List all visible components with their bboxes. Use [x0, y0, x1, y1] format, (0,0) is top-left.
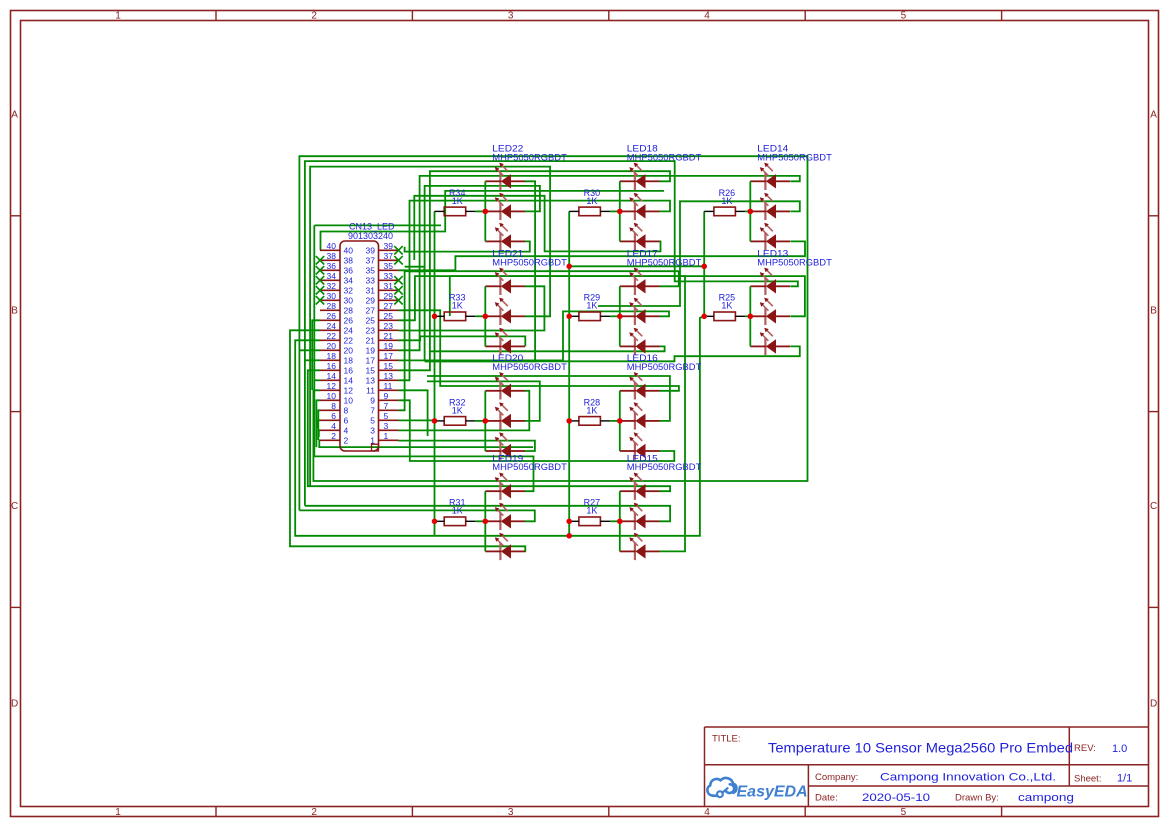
pin 37 lead [379, 259, 399, 261]
wire LED19 red to pin14 [314, 379, 320, 381]
junction [432, 519, 438, 525]
pin 11 lead [379, 389, 399, 391]
wire LED22 blue run [405, 241, 530, 251]
wire resistor net link [569, 265, 704, 267]
svg-text:35: 35 [384, 261, 394, 271]
svg-text:MHP5050RGBDT: MHP5050RGBDT [757, 257, 832, 268]
wire LED21 blue to pin21 [399, 336, 526, 346]
connector pin1 notch [372, 444, 379, 451]
svg-text:26: 26 [344, 316, 354, 326]
wire R31 to LED [475, 520, 485, 522]
svg-text:32: 32 [344, 286, 354, 296]
pin 5 lead [379, 419, 399, 421]
svg-text:1.0: 1.0 [1112, 743, 1127, 755]
pin 6 lead [320, 419, 340, 421]
wire R30 to LED [610, 210, 620, 212]
svg-text:1K: 1K [452, 196, 463, 206]
pin 10 lead [320, 399, 340, 401]
resistor R30 1K [569, 188, 610, 216]
wire R29 to LED [610, 315, 620, 317]
pin 36 no-connect X [316, 266, 324, 274]
svg-text:1K: 1K [721, 196, 732, 206]
svg-text:17: 17 [366, 356, 376, 366]
svg-text:38: 38 [344, 256, 354, 266]
wire pin35 to LED14 blue [399, 241, 806, 270]
svg-text:23: 23 [366, 326, 376, 336]
junction [701, 264, 707, 270]
svg-text:campong: campong [1018, 792, 1074, 804]
svg-text:D: D [11, 699, 18, 710]
LED LED18 MHP5050RGBDT [620, 144, 702, 250]
svg-text:22: 22 [344, 336, 354, 346]
svg-text:21: 21 [366, 336, 376, 346]
svg-text:37: 37 [384, 251, 394, 261]
svg-text:35: 35 [366, 266, 376, 276]
frame tick [11, 606, 21, 608]
LED LED14 MHP5050RGBDT [750, 144, 832, 250]
svg-text:2: 2 [331, 431, 336, 441]
wire cathode bus LED14 [749, 181, 751, 241]
wire pin17 to LED17 green [399, 311, 670, 360]
wire LED21 red to pin23 [399, 286, 545, 330]
svg-text:3: 3 [370, 426, 375, 436]
resistor R26 1K [704, 188, 745, 216]
LED LED19 MHP5050RGBDT [485, 454, 567, 560]
pin 18 lead [320, 359, 340, 361]
svg-text:1K: 1K [721, 301, 732, 311]
wire pin16 to LED15 red [308, 370, 670, 491]
svg-text:39: 39 [366, 246, 376, 256]
resistor R31 1K [435, 498, 476, 526]
svg-text:15: 15 [366, 366, 376, 376]
wire resistor net col2 vertical [568, 211, 570, 535]
frame tick [804, 807, 806, 817]
wire resistor net col1 vertical [434, 211, 436, 535]
svg-text:31: 31 [366, 286, 376, 296]
frame tick [804, 11, 806, 21]
svg-text:29: 29 [366, 296, 376, 306]
svg-text:37: 37 [366, 256, 376, 266]
wire cathode bus LED15 [619, 491, 621, 551]
svg-text:13: 13 [384, 371, 394, 381]
svg-text:25: 25 [366, 316, 376, 326]
svg-text:20: 20 [344, 346, 354, 356]
wire R28 to LED [610, 420, 620, 422]
resistor R32 1K [435, 397, 476, 425]
svg-text:1K: 1K [586, 196, 597, 206]
svg-text:14: 14 [327, 371, 337, 381]
svg-text:C: C [1150, 501, 1157, 512]
svg-text:MHP5050RGBDT: MHP5050RGBDT [627, 362, 702, 373]
svg-text:11: 11 [366, 386, 375, 396]
pin 20 lead [320, 349, 340, 351]
svg-text:33: 33 [384, 271, 394, 281]
wire R34 to LED [475, 210, 485, 212]
svg-text:MHP5050RGBDT: MHP5050RGBDT [757, 152, 832, 163]
wire pin15 to LED18 red [399, 171, 671, 370]
junction [566, 264, 572, 270]
svg-text:18: 18 [327, 351, 337, 361]
pin 19 lead [379, 349, 399, 351]
frame tick [1149, 215, 1159, 217]
svg-text:4: 4 [344, 426, 349, 436]
wire LED20 blue to pin1 [399, 441, 535, 451]
pin 3 lead [379, 429, 399, 431]
svg-text:Sheet:: Sheet: [1074, 773, 1101, 784]
wire resistor net col3 vertical [703, 211, 705, 316]
pin 15 lead [379, 369, 399, 371]
pin 17 lead [379, 359, 399, 361]
svg-text:TITLE:: TITLE: [712, 734, 741, 745]
wire pin25 to LED13 green [399, 276, 805, 320]
pin 14 lead [320, 379, 340, 381]
frame tick [1001, 11, 1003, 21]
wire pin8 hook [318, 410, 320, 440]
svg-text:3: 3 [508, 11, 514, 22]
wire net L1 pin20 riser to pin12 loop [299, 156, 807, 510]
svg-text:21: 21 [384, 331, 394, 341]
pin 25 lead [379, 319, 399, 321]
junction LED15 cathode [617, 519, 623, 525]
svg-text:1K: 1K [586, 506, 597, 516]
pin 8 lead [320, 409, 340, 411]
svg-text:30: 30 [344, 296, 354, 306]
svg-text:36: 36 [344, 266, 354, 276]
wire LED17 blue route [430, 346, 665, 351]
frame tick [215, 807, 217, 817]
pin 27 lead [379, 309, 399, 311]
resistor R25 1K [704, 293, 745, 321]
svg-text:7: 7 [384, 401, 389, 411]
svg-text:MHP5050RGBDT: MHP5050RGBDT [492, 257, 567, 268]
wire pin9 to LED16 blue [399, 400, 675, 461]
junction [566, 418, 572, 424]
wire pin18 to LED15 green [305, 359, 320, 361]
svg-text:31: 31 [384, 281, 394, 291]
svg-text:8: 8 [331, 401, 336, 411]
svg-text:5: 5 [901, 807, 907, 818]
junction LED13 cathode [748, 314, 754, 320]
pin 31 lead [379, 289, 399, 291]
wire pin27 to LED16 red [399, 310, 679, 391]
svg-text:24: 24 [327, 321, 337, 331]
wire resistor common net (pin22) [295, 316, 704, 536]
svg-text:6: 6 [331, 411, 336, 421]
wire net L3 to LED21 green [310, 167, 550, 487]
svg-text:1: 1 [370, 436, 375, 446]
pin 22 lead [320, 339, 340, 341]
junction [432, 314, 438, 320]
pin 16 lead [320, 369, 340, 371]
svg-text:2: 2 [344, 436, 349, 446]
junction [566, 314, 572, 320]
svg-text:12: 12 [344, 386, 354, 396]
svg-text:40: 40 [327, 241, 337, 251]
pin 30 no-connect X [316, 296, 324, 304]
LED LED21 MHP5050RGBDT [485, 249, 567, 355]
wire R25 to LED [745, 315, 750, 317]
LED LED17 MHP5050RGBDT [620, 249, 702, 355]
svg-text:18: 18 [344, 356, 354, 366]
svg-text:Campong Innovation Co.,Ltd.: Campong Innovation Co.,Ltd. [880, 771, 1056, 783]
pin 38 no-connect X [316, 256, 324, 264]
svg-text:26: 26 [327, 311, 337, 321]
svg-text:REV:: REV: [1074, 743, 1096, 754]
junction LED17 cathode [617, 314, 623, 320]
LED LED13 MHP5050RGBDT [750, 249, 832, 355]
junction [432, 418, 438, 424]
pin 32 lead [320, 289, 340, 291]
wire LED18 blue riser [414, 196, 660, 260]
svg-text:MHP5050RGBDT: MHP5050RGBDT [627, 257, 702, 268]
pin 26 lead [320, 319, 340, 321]
frame tick [608, 807, 610, 817]
wire LED20 red to pin3 [399, 391, 530, 431]
svg-text:4: 4 [331, 421, 336, 431]
wire LED19 green run [299, 510, 534, 521]
wire pin6 hook [317, 420, 320, 428]
pin 21 lead [379, 339, 399, 341]
pin 13 lead [379, 379, 399, 381]
svg-text:1K: 1K [586, 405, 597, 415]
svg-text:27: 27 [366, 306, 376, 316]
wire LED19 blue to pin24 [290, 330, 525, 551]
LED LED22 MHP5050RGBDT [485, 144, 567, 250]
junction LED21 cathode [483, 314, 489, 320]
wire LED20 green up [427, 381, 540, 421]
svg-text:8: 8 [344, 406, 349, 416]
wire LED15 green run [305, 506, 670, 522]
junction LED20 cathode [483, 418, 489, 424]
svg-text:MHP5050RGBDT: MHP5050RGBDT [492, 152, 567, 163]
wire pin26 hook [312, 320, 320, 390]
frame tick [1149, 411, 1159, 413]
svg-text:1K: 1K [452, 301, 463, 311]
pin 32 no-connect X [316, 286, 324, 294]
wire pin2 under-run [319, 440, 533, 447]
wire R26 to LED [745, 210, 750, 212]
svg-text:C: C [11, 501, 18, 512]
svg-text:34: 34 [327, 271, 337, 281]
wire LED19 green to pin20 [299, 349, 320, 351]
LED LED15 MHP5050RGBDT [620, 454, 702, 560]
junction LED19 cathode [483, 519, 489, 525]
svg-text:16: 16 [344, 366, 354, 376]
wire R32 to LED [475, 420, 485, 422]
wire pin7 to LED17 red [399, 271, 679, 410]
pin 29 no-connect X [394, 296, 402, 304]
junction [566, 533, 572, 539]
svg-text:1K: 1K [452, 506, 463, 516]
pin 34 lead [320, 279, 340, 281]
EasyEDA logo cloud icon [707, 778, 736, 797]
frame tick [1001, 807, 1003, 817]
svg-text:4: 4 [704, 807, 710, 818]
svg-text:D: D [1150, 699, 1157, 710]
svg-text:3: 3 [384, 421, 389, 431]
LED LED16 MHP5050RGBDT [620, 353, 702, 460]
wire cathode bus LED18 [619, 181, 621, 241]
svg-text:5: 5 [384, 411, 389, 421]
svg-text:19: 19 [384, 341, 394, 351]
svg-text:2020-05-10: 2020-05-10 [862, 792, 930, 804]
svg-text:B: B [11, 305, 18, 316]
wire cathode bus LED17 [619, 286, 621, 346]
wire cathode bus LED13 [749, 286, 751, 346]
pin 4 lead [320, 429, 340, 431]
frame tick [215, 11, 217, 21]
pin 24 lead [320, 329, 340, 331]
svg-text:2: 2 [311, 11, 317, 22]
svg-text:MHP5050RGBDT: MHP5050RGBDT [627, 462, 702, 473]
svg-text:10: 10 [344, 396, 354, 406]
svg-text:15: 15 [384, 361, 394, 371]
svg-text:32: 32 [327, 281, 337, 291]
svg-text:24: 24 [344, 326, 354, 336]
wire cathode bus LED16 [619, 391, 621, 451]
svg-text:17: 17 [384, 351, 394, 361]
wire pin40 top route [321, 191, 665, 250]
frame tick [411, 807, 413, 817]
pin 12 lead [320, 389, 340, 391]
junction LED14 cathode [748, 209, 754, 215]
svg-text:6: 6 [344, 416, 349, 426]
pin 9 lead [379, 399, 399, 401]
connector CN13 body [340, 241, 379, 451]
frame tick [608, 11, 610, 21]
wire LED13 blue [425, 346, 800, 361]
resistor R27 1K [569, 498, 610, 526]
svg-text:38: 38 [327, 251, 337, 261]
svg-text:Drawn By:: Drawn By: [955, 793, 999, 804]
pin 33 no-connect X [394, 276, 402, 284]
pin 23 lead [379, 329, 399, 331]
frame tick [1149, 606, 1159, 608]
svg-text:36: 36 [327, 261, 337, 271]
svg-text:9: 9 [370, 396, 375, 406]
wire cathode bus LED19 [484, 491, 486, 551]
pin 35 lead [379, 269, 399, 271]
wire LED15 blue riser [450, 276, 685, 551]
wire cathode bus LED21 [484, 286, 486, 346]
frame tick [411, 11, 413, 21]
svg-text:A: A [11, 110, 18, 121]
wire LED22 green riser [425, 186, 540, 361]
pin 39 lead [379, 249, 399, 251]
junction LED16 cathode [617, 418, 623, 424]
svg-text:14: 14 [344, 376, 354, 386]
junction LED18 cathode [617, 209, 623, 215]
svg-text:EasyEDA: EasyEDA [737, 783, 808, 800]
frame tick [11, 215, 21, 217]
pin 39 no-connect X [394, 246, 402, 254]
svg-text:1: 1 [384, 431, 389, 441]
svg-text:3: 3 [508, 807, 514, 818]
junction [566, 519, 572, 525]
pin 29 lead [379, 299, 399, 301]
svg-text:19: 19 [366, 346, 376, 356]
wire pin13 to LED18 green [399, 201, 671, 381]
svg-text:40: 40 [344, 246, 354, 256]
svg-text:5: 5 [901, 11, 907, 22]
wire LED14 green [598, 201, 800, 306]
svg-text:MHP5050RGBDT: MHP5050RGBDT [492, 362, 567, 373]
wire LED19 red vertical [314, 225, 533, 491]
wire cathode bus LED22 [484, 181, 486, 241]
pin 37 no-connect X [394, 256, 402, 264]
svg-text:MHP5050RGBDT: MHP5050RGBDT [492, 462, 567, 473]
wire pin10 hook [316, 400, 320, 447]
pin 40 lead [320, 249, 340, 251]
svg-text:22: 22 [327, 331, 337, 341]
svg-text:1: 1 [115, 807, 121, 818]
svg-text:901303240: 901303240 [348, 231, 393, 241]
svg-text:1K: 1K [452, 405, 463, 415]
pin 31 no-connect X [394, 286, 402, 294]
pin 30 lead [320, 299, 340, 301]
svg-text:30: 30 [327, 291, 337, 301]
svg-text:29: 29 [384, 291, 394, 301]
pin 7 lead [379, 409, 399, 411]
svg-text:7: 7 [370, 406, 375, 416]
pin 28 lead [320, 309, 340, 311]
svg-text:33: 33 [366, 276, 376, 286]
svg-text:20: 20 [327, 341, 337, 351]
svg-text:27: 27 [384, 301, 394, 311]
wire R33 to LED [475, 315, 485, 317]
frame tick [11, 411, 21, 413]
svg-text:1: 1 [115, 11, 121, 22]
wire cathode bus LED20 [484, 391, 486, 451]
wire bundle detail box [405, 267, 425, 272]
svg-text:5: 5 [370, 416, 375, 426]
svg-text:28: 28 [327, 301, 337, 311]
wire net L2 to LED13 red [305, 161, 798, 506]
svg-text:MHP5050RGBDT: MHP5050RGBDT [627, 152, 702, 163]
svg-text:Company:: Company: [815, 772, 858, 783]
svg-text:16: 16 [327, 361, 337, 371]
resistor R29 1K [569, 293, 610, 321]
resistor R34 1K [435, 188, 476, 216]
pin 38 lead [320, 259, 340, 261]
junction [701, 314, 707, 320]
svg-text:23: 23 [384, 321, 394, 331]
wire R27 to LED [610, 520, 620, 522]
svg-text:13: 13 [366, 376, 376, 386]
resistor R28 1K [569, 397, 610, 425]
pin 2 lead [320, 439, 340, 441]
wire pin5 to resistor net [399, 419, 435, 421]
svg-text:39: 39 [384, 241, 394, 251]
resistor R33 1K [435, 293, 476, 321]
svg-text:2: 2 [311, 807, 317, 818]
wire pin11 hook [399, 390, 428, 436]
svg-text:28: 28 [344, 306, 354, 316]
svg-text:12: 12 [327, 381, 337, 391]
title block outline [705, 727, 1149, 807]
svg-text:Date:: Date: [815, 793, 838, 804]
wire LED16 green [427, 376, 670, 421]
svg-text:10: 10 [327, 391, 337, 401]
wire pin19 to LED14 red [399, 176, 800, 350]
wire LED22 red down [425, 181, 535, 361]
svg-text:11: 11 [384, 381, 393, 391]
svg-text:4: 4 [704, 11, 710, 22]
pin 34 no-connect X [316, 276, 324, 284]
svg-text:34: 34 [344, 276, 354, 286]
pin 36 lead [320, 269, 340, 271]
svg-text:1K: 1K [586, 301, 597, 311]
